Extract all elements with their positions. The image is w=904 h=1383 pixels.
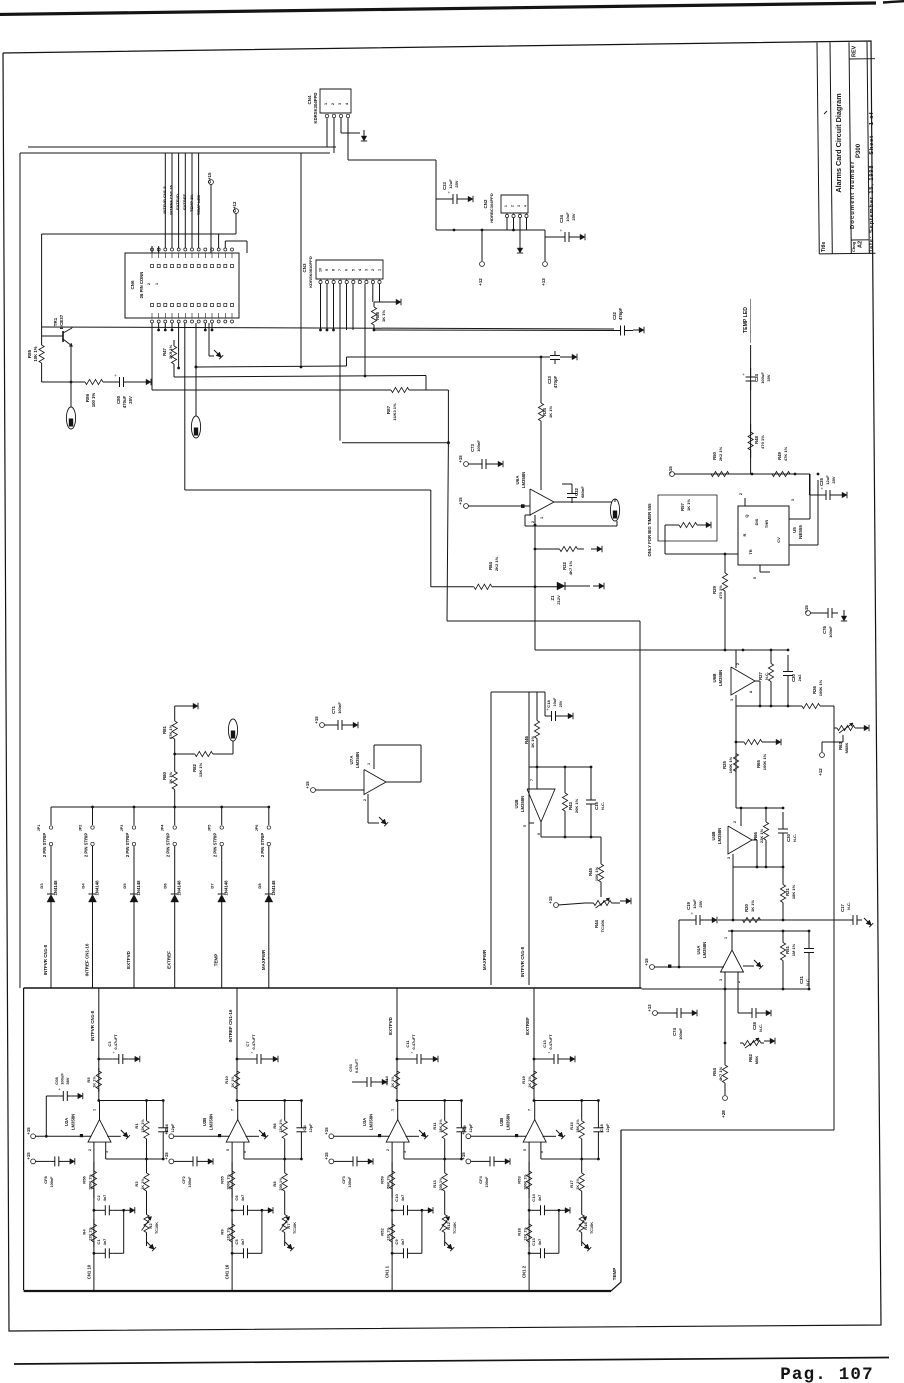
- node +12 O right: [842, 735, 844, 742]
- svg-text:CN1 2: CN1 2: [522, 1265, 527, 1278]
- svg-text:R49: R49: [777, 451, 782, 459]
- svg-text:C2: C2: [96, 1195, 101, 1201]
- svg-text:18K 1%: 18K 1%: [576, 1119, 580, 1133]
- resistor R43: [564, 767, 566, 793]
- svg-text:1: 1: [391, 1109, 395, 1111]
- capacitor CF8 100nF: [50, 1160, 55, 1162]
- svg-text:100K 1%: 100K 1%: [818, 679, 823, 696]
- svg-text:4n7: 4n7: [241, 1239, 245, 1246]
- svg-text:100nF: 100nF: [476, 440, 481, 452]
- note box ONLY FOR BIG TIMER 555: [658, 495, 717, 541]
- capacitor C18: [537, 691, 545, 693]
- wire CN4 pin3 to ground: [340, 118, 342, 133]
- wire CN4 branch down: [300, 153, 302, 368]
- wire top link: [491, 691, 537, 693]
- svg-text:KDRSK304PPD: KDRSK304PPD: [313, 93, 318, 124]
- diode D5 1N4148: [133, 846, 135, 894]
- svg-text:R29: R29: [712, 585, 717, 593]
- svg-text:R25: R25: [722, 760, 727, 768]
- svg-text:LM358N: LM358N: [717, 828, 722, 844]
- wire bus line2: [174, 376, 426, 378]
- svg-text:100nF: 100nF: [485, 1176, 489, 1188]
- wire CN6 pin top-left: [151, 246, 153, 253]
- svg-text:LM358N: LM358N: [520, 796, 525, 812]
- wire long horizontal top bus: [20, 152, 330, 154]
- capacitor C4 12pF: [300, 1101, 302, 1128]
- wire feedback bottom rail: [540, 1142, 542, 1159]
- wire long vertical right: [833, 728, 835, 1130]
- svg-text:5: 5: [523, 825, 527, 827]
- svg-text:R57: R57: [680, 502, 685, 510]
- svg-text:INTFVR CN1-8: INTFVR CN1-8: [43, 944, 48, 975]
- svg-text:+: +: [560, 228, 563, 233]
- svg-text:N.C.: N.C.: [758, 1024, 763, 1032]
- svg-text:N.C.: N.C.: [600, 802, 605, 810]
- svg-text:1: 1: [378, 269, 382, 271]
- capacitor C71: [324, 724, 333, 726]
- wire CN6 pin to gnd: [208, 323, 210, 356]
- ground C08: [72, 1095, 78, 1097]
- wire +12 run: [42, 233, 236, 235]
- wire TR1 collector: [71, 327, 73, 328]
- svg-text:C5: C5: [234, 1239, 239, 1245]
- svg-text:12K 1%: 12K 1%: [227, 1227, 231, 1241]
- resistor R45: [600, 837, 602, 858]
- svg-text:4K7 1%: 4K7 1%: [568, 560, 573, 575]
- svg-text:C9: C9: [394, 1239, 399, 1245]
- wire pin2 chain: [528, 1142, 530, 1291]
- svg-text:CF8: CF8: [43, 1175, 48, 1183]
- wire pin2 chain: [231, 1142, 233, 1291]
- op-amp U2B LM358N: [237, 1101, 239, 1120]
- svg-text:R26: R26: [812, 685, 817, 693]
- ground CN2: [519, 242, 521, 248]
- svg-text:JP4: JP4: [161, 824, 165, 832]
- svg-text:KDRSK0810PPD: KDRSK0810PPD: [308, 256, 313, 288]
- svg-text:+28: +28: [721, 1110, 726, 1118]
- svg-text:1: 1: [155, 283, 159, 285]
- svg-text:INTREF CN1-16: INTREF CN1-16: [228, 1009, 233, 1042]
- resistor R51: [782, 931, 784, 943]
- svg-text:3: 3: [730, 699, 734, 701]
- wire left bus vertical: [19, 153, 21, 988]
- svg-text:1: 1: [504, 205, 508, 207]
- svg-text:R18: R18: [517, 1228, 522, 1236]
- svg-text:JP6: JP6: [255, 825, 259, 832]
- svg-text:100nF: 100nF: [348, 1176, 352, 1188]
- svg-text:LM358N: LM358N: [355, 752, 360, 768]
- ground channel op-amp: [107, 1135, 121, 1137]
- channel rail EXTREF: [533, 988, 535, 1101]
- svg-text:7: 7: [530, 779, 534, 781]
- svg-text:TC10K: TC10K: [600, 920, 605, 933]
- capacitor C9 4n7: [391, 1252, 394, 1255]
- node +15 U6A: [464, 462, 469, 467]
- wire mid horizontal 920: [718, 919, 848, 921]
- svg-text:0.47uFT: 0.47uFT: [548, 1034, 553, 1050]
- svg-text:2: 2: [733, 821, 737, 823]
- wire diode row rail: [51, 806, 269, 808]
- svg-text:R85: R85: [27, 349, 32, 358]
- wire bus line4: [342, 442, 448, 444]
- svg-text:100nF: 100nF: [50, 1176, 54, 1188]
- ground channel cap: [499, 1160, 505, 1162]
- wire U6B minus chain: [735, 695, 737, 808]
- ground c2: [559, 1209, 565, 1211]
- svg-text:Chng: Chng: [851, 241, 856, 252]
- wire bus line3 with R87: [152, 389, 380, 391]
- svg-text:+15: +15: [548, 896, 553, 904]
- wire U4A bottom rail: [642, 988, 810, 990]
- resistor R10: [236, 1068, 238, 1071]
- svg-text:TC10K: TC10K: [155, 1222, 159, 1234]
- capacitor C20: [787, 655, 789, 672]
- ground C3: [129, 1058, 135, 1060]
- ground C23: [566, 356, 572, 358]
- svg-text:N.C.: N.C.: [846, 902, 851, 910]
- svg-text:2: 2: [331, 103, 335, 105]
- title block REV cell: [849, 58, 875, 60]
- ground R32: [591, 548, 597, 550]
- svg-text:U4B: U4B: [711, 831, 716, 841]
- ground C34: [574, 236, 580, 238]
- zener Z1: [535, 586, 557, 588]
- title block A2 cell: [851, 239, 869, 241]
- svg-text:1K 1%: 1K 1%: [391, 1076, 395, 1088]
- ground channel op-amp: [406, 1135, 420, 1137]
- wire R85 base link: [42, 335, 55, 337]
- wire R26 to trimmer: [833, 706, 835, 728]
- svg-text:12pF: 12pF: [606, 1123, 610, 1133]
- page top rule: [0, 3, 876, 15]
- svg-text:+15: +15: [164, 1152, 169, 1160]
- diode D6 1N4148: [174, 846, 176, 894]
- ground trimmer R63: [858, 727, 864, 729]
- wire feedback top rail ch: [533, 1099, 536, 1102]
- wire U6B input rail: [724, 649, 727, 652]
- wire U6B output/feedback: [755, 680, 760, 682]
- svg-text:Z12V: Z12V: [556, 595, 561, 605]
- svg-text:EXTFVD: EXTFVD: [175, 194, 180, 210]
- svg-text:0.47uFT: 0.47uFT: [355, 1058, 359, 1073]
- svg-text:R5: R5: [86, 1077, 91, 1083]
- resistor R26: [788, 705, 802, 707]
- svg-text:JP1: JP1: [37, 825, 41, 832]
- wire U6A fb down: [534, 524, 537, 527]
- wire CN6 pin 26 up: [224, 241, 226, 248]
- svg-text:C13: C13: [542, 1040, 547, 1048]
- title block frame: [817, 43, 819, 254]
- svg-text:680nF: 680nF: [580, 486, 585, 498]
- svg-text:1: 1: [92, 1109, 96, 1111]
- svg-text:10K 1%: 10K 1%: [594, 866, 599, 881]
- trimmer R63 M88K: [834, 727, 837, 729]
- wire feedback top rail ch: [396, 1099, 399, 1102]
- capacitor C9 12pF: [460, 1101, 462, 1128]
- svg-text:1N4148: 1N4148: [53, 880, 58, 896]
- capacitor C08 100uF 36V: [45, 1135, 48, 1138]
- wire feedback bottom rail: [243, 1142, 245, 1159]
- svg-text:C15: C15: [594, 801, 599, 809]
- ground c2: [262, 1209, 268, 1211]
- svg-text:N.C.: N.C.: [792, 834, 797, 842]
- wire CN6 pin7 long route to R84: [184, 323, 186, 490]
- svg-text:6: 6: [345, 269, 349, 271]
- wire CN6 pin9 down to line2: [178, 323, 180, 368]
- op-amp U4B LM358N: [728, 826, 752, 854]
- capacitor C76: [810, 612, 822, 614]
- node +15 channel cap: [466, 1159, 471, 1164]
- svg-text:10: 10: [319, 268, 323, 272]
- wire opamp bottom rail: [540, 822, 542, 837]
- svg-text:R34: R34: [542, 407, 547, 415]
- capacitor C5 4n7: [231, 1252, 234, 1255]
- svg-text:LM358N: LM358N: [506, 1114, 511, 1130]
- svg-text:R87: R87: [386, 405, 391, 414]
- svg-text:18K 1%: 18K 1%: [439, 1119, 443, 1133]
- resistor R4: [93, 1219, 95, 1224]
- jumper JP2 2 PIN STRIP: [92, 807, 94, 825]
- svg-text:R21: R21: [785, 887, 790, 895]
- op-amp U7A LM358N: [315, 789, 364, 791]
- capacitor C16 12pF: [162, 1101, 164, 1128]
- resistor R56: [93, 1162, 95, 1171]
- svg-text:R59: R59: [380, 1176, 385, 1184]
- svg-text:+15: +15: [458, 455, 463, 463]
- wire U6A output: [554, 501, 612, 503]
- svg-text:3: 3: [517, 205, 521, 207]
- resistor R80: [174, 754, 176, 772]
- ground Z1: [593, 585, 599, 587]
- trimmer R62 M8K: [740, 1042, 743, 1044]
- svg-text:2: 2: [371, 269, 375, 271]
- diode D4 1N4148: [92, 846, 94, 894]
- svg-text:R50: R50: [712, 451, 717, 459]
- wire CN6 pin5 long down: [151, 323, 153, 390]
- svg-text:TR1: TR1: [53, 317, 58, 326]
- resistor R88: [373, 302, 375, 307]
- wire R57 to U5 TR: [665, 524, 676, 526]
- svg-text:3: 3: [727, 857, 731, 859]
- ground mid: [214, 350, 218, 354]
- svg-text:7: 7: [338, 269, 342, 271]
- node +13 O: [544, 237, 546, 261]
- svg-text:+15: +15: [324, 1152, 329, 1160]
- ground C74: [686, 1012, 692, 1014]
- transistor TR1 BCE37: [62, 331, 64, 342]
- svg-text:R20: R20: [744, 903, 749, 911]
- node +15 C71: [320, 723, 325, 728]
- svg-text:1N4148: 1N4148: [136, 880, 141, 896]
- svg-text:0.47uFT: 0.47uFT: [113, 1034, 118, 1050]
- wire emitter down: [70, 346, 72, 382]
- wire 555 supply rail: [674, 473, 810, 475]
- svg-text:R13: R13: [432, 1180, 437, 1188]
- svg-text:CN2: CN2: [483, 199, 488, 208]
- svg-text:R10: R10: [224, 1076, 229, 1084]
- svg-text:EXTFVD: EXTFVD: [388, 1016, 393, 1034]
- svg-text:A2: A2: [858, 241, 864, 248]
- svg-text:R46: R46: [524, 735, 529, 743]
- svg-text:NE555: NE555: [798, 525, 803, 539]
- connector CN2: [501, 195, 528, 213]
- svg-text:CN1 1: CN1 1: [385, 1265, 390, 1278]
- svg-text:Title: Title: [821, 242, 827, 252]
- svg-text:JP2: JP2: [79, 825, 83, 832]
- capacitor C7 0.47uFT: [236, 1058, 239, 1061]
- svg-text:HDRBC304PPD: HDRBC304PPD: [489, 193, 494, 223]
- svg-text:U6A: U6A: [515, 475, 520, 485]
- resistor R55: [231, 1162, 233, 1171]
- svg-text:A: A: [749, 690, 753, 693]
- capacitor C31: [808, 931, 810, 949]
- resistor R57: [676, 524, 679, 526]
- svg-text:D3: D3: [39, 883, 44, 889]
- resistor R52: [391, 1219, 393, 1224]
- ground C18: [562, 715, 568, 717]
- svg-text:26 PIN CONN: 26 PIN CONN: [139, 272, 144, 299]
- svg-text:1M 1%: 1M 1%: [791, 943, 796, 956]
- wire U4A pin2: [737, 972, 739, 1013]
- svg-text:200 1%: 200 1%: [439, 1177, 443, 1191]
- svg-text:1: 1: [324, 103, 328, 105]
- svg-text:+15: +15: [668, 466, 673, 474]
- svg-text:100K 1%: 100K 1%: [762, 753, 767, 770]
- svg-text:4: 4: [358, 269, 362, 271]
- wire feedback bottom rail: [403, 1142, 405, 1159]
- svg-text:2: 2: [386, 1149, 390, 1151]
- svg-text:N.C.: N.C.: [764, 672, 769, 680]
- resistor R8: [284, 1159, 286, 1173]
- svg-text:R7: R7: [286, 1223, 291, 1229]
- svg-text:R3: R3: [134, 1181, 139, 1187]
- svg-text:5: 5: [351, 269, 355, 271]
- channel box outline: [24, 987, 642, 989]
- svg-text:+13: +13: [541, 278, 546, 286]
- capacitor C73: [468, 463, 476, 465]
- svg-text:+15: +15: [164, 1127, 169, 1135]
- svg-text:12K 1%: 12K 1%: [524, 1227, 528, 1241]
- resistor R19: [533, 1068, 535, 1071]
- wire U5 THR: [789, 544, 818, 546]
- resistor R20: [733, 919, 743, 921]
- svg-text:100nF: 100nF: [188, 1176, 192, 1188]
- resistor R48: [750, 424, 752, 432]
- ground CN4: [363, 130, 365, 136]
- svg-text:R80: R80: [162, 771, 167, 779]
- svg-text:5: 5: [523, 1149, 527, 1151]
- svg-text:O+12: O+12: [232, 201, 237, 213]
- svg-text:CV: CV: [776, 537, 781, 543]
- svg-text:R55: R55: [220, 1176, 225, 1184]
- channel rail EXTFVD: [396, 988, 398, 1101]
- resistor R1: [146, 1101, 148, 1121]
- capacitor C80: [103, 381, 120, 383]
- trimmer R2 TC10K: [146, 1205, 148, 1215]
- svg-text:MAXPWR: MAXPWR: [261, 949, 266, 970]
- svg-text:C71: C71: [331, 705, 336, 713]
- wire CN2 rail: [436, 229, 545, 231]
- svg-text:C11: C11: [405, 1040, 410, 1048]
- svg-text:REV: REV: [852, 45, 858, 57]
- svg-text:2: 2: [511, 205, 515, 207]
- svg-text:2: 2: [147, 283, 151, 285]
- svg-text:R17: R17: [569, 1180, 574, 1188]
- capacitor C13 4n7: [528, 1252, 531, 1255]
- svg-text:R81: R81: [162, 725, 167, 733]
- svg-text:+: +: [114, 373, 117, 378]
- ground C73: [492, 463, 498, 465]
- svg-text:R11: R11: [432, 1122, 437, 1130]
- svg-text:THR: THR: [764, 520, 769, 528]
- svg-text:+13: +13: [647, 1004, 652, 1012]
- svg-text:Pag. 107: Pag. 107: [780, 1365, 874, 1383]
- ground C71: [347, 724, 353, 726]
- svg-text:M88K: M88K: [844, 743, 849, 754]
- svg-text:Date: September 15, 1998 S: Date: September 15, 1998 Sheet 1 of: [869, 112, 875, 254]
- svg-text:4n7: 4n7: [538, 1195, 542, 1202]
- wire pin2 chain: [391, 1142, 393, 1291]
- svg-text:U6B: U6B: [712, 673, 717, 683]
- svg-text:1N4148: 1N4148: [224, 880, 229, 896]
- svg-text:10K 1%: 10K 1%: [33, 346, 38, 361]
- svg-text:R53: R53: [517, 1176, 522, 1184]
- svg-text:R62: R62: [748, 1053, 753, 1061]
- capacitor C10 4n7: [391, 1209, 394, 1212]
- wire U4A pin3 chain: [724, 972, 726, 1063]
- resistor R21: [782, 867, 784, 885]
- svg-text:1: 1: [367, 763, 371, 765]
- svg-text:100 1%: 100 1%: [91, 393, 96, 408]
- svg-text:C18: C18: [546, 700, 551, 708]
- svg-text:100K 1%: 100K 1%: [728, 756, 733, 773]
- svg-text:470 1%: 470 1%: [718, 585, 723, 599]
- ground C17: [864, 918, 868, 922]
- svg-text:Q: Q: [744, 514, 749, 517]
- ground R62: [764, 1040, 770, 1042]
- svg-text:1UK3 1%: 1UK3 1%: [392, 403, 397, 421]
- svg-text:R15: R15: [569, 1122, 574, 1130]
- wire CN4 pin2: [333, 118, 335, 153]
- ground channel cap: [64, 1160, 70, 1162]
- svg-text:CN4: CN4: [307, 95, 312, 104]
- svg-text:CF2: CF2: [181, 1175, 186, 1183]
- svg-text:+: +: [448, 190, 451, 195]
- wire U6A + input: [540, 452, 542, 490]
- svg-text:+15: +15: [305, 781, 310, 789]
- svg-text:12uF: 12uF: [825, 475, 830, 485]
- resistor R47: [173, 340, 175, 346]
- wire CN4 pin1: [326, 118, 328, 147]
- svg-text:CF4: CF4: [478, 1175, 483, 1183]
- resistor R81: [174, 706, 176, 721]
- svg-text:INTREF CN1-16: INTREF CN1-16: [169, 185, 174, 215]
- svg-text:+15: +15: [26, 1152, 31, 1160]
- svg-text:C22: C22: [612, 311, 617, 319]
- node +15 channel op-amp: [169, 1134, 174, 1139]
- wire CN3 pin1 to R88: [379, 284, 381, 302]
- svg-text:C73: C73: [470, 443, 475, 451]
- op-amp U4A LM358N: [721, 950, 744, 972]
- svg-text:1K 1%: 1K 1%: [750, 900, 755, 912]
- svg-text:25V: 25V: [571, 213, 576, 220]
- svg-text:1N4148: 1N4148: [95, 880, 100, 896]
- svg-text:D7: D7: [210, 883, 215, 889]
- svg-text:R: R: [742, 533, 747, 536]
- svg-text:2 PIN STRIP: 2 PIN STRIP: [84, 833, 89, 857]
- resistor R5: [98, 1068, 100, 1071]
- svg-text:1K 1%: 1K 1%: [168, 772, 173, 784]
